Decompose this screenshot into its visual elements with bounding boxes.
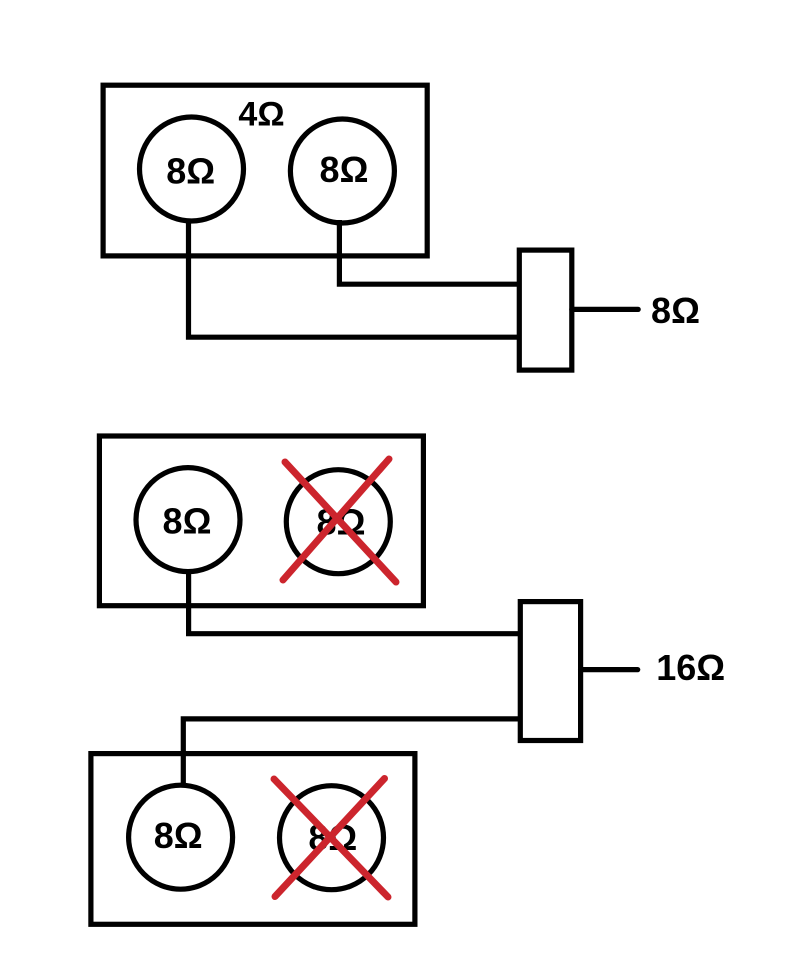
jack plate J2 [520, 602, 580, 741]
svg-text:4Ω: 4Ω [238, 96, 284, 134]
wire SP2 to jack J1 [339, 220, 520, 284]
wire SP1 to jack J1 [189, 219, 521, 337]
wire SP3 to jack J2 [189, 569, 521, 634]
svg-text:8Ω: 8Ω [651, 290, 700, 331]
red X over SP4 stroke 1 [285, 462, 396, 582]
wire jack J2 to SP5 [183, 719, 521, 785]
svg-text:8Ω: 8Ω [320, 149, 369, 190]
red X over SP4 stroke 2 [283, 459, 389, 580]
output lead J2 [581, 667, 638, 672]
speaker SP2 (cabinet 1 right) [290, 119, 394, 223]
output lead J1 [572, 307, 638, 312]
speaker SP1 (cabinet 1 left) [140, 117, 244, 221]
svg-text:8Ω: 8Ω [154, 815, 203, 856]
red X over SP6 stroke 2 [275, 779, 385, 897]
red X over SP6 stroke 1 [274, 779, 388, 897]
svg-text:16Ω: 16Ω [656, 647, 725, 688]
cabinet 1 (top 4-ohm cabinet) [103, 85, 427, 256]
speaker SP4 (cabinet 2 right, disconnected) [286, 470, 390, 574]
speaker SP3 (cabinet 2 left) [136, 468, 240, 572]
jack plate J1 [519, 250, 572, 370]
svg-text:8Ω: 8Ω [163, 501, 212, 542]
svg-text:8Ω: 8Ω [166, 150, 215, 191]
speaker SP5 (cabinet 3 left) [129, 785, 233, 889]
cabinet 3 (bottom cabinet) [91, 754, 415, 925]
speaker SP6 (cabinet 3 right, disconnected) [280, 786, 384, 890]
cabinet 2 (middle cabinet) [99, 436, 423, 606]
